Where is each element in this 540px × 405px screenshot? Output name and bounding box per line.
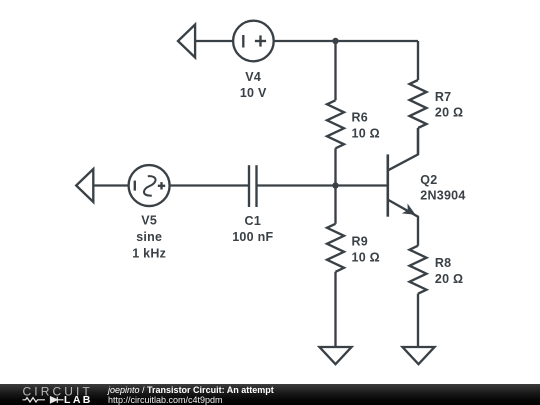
svg-text:V4: V4 xyxy=(245,70,261,84)
svg-text:10 Ω: 10 Ω xyxy=(352,126,380,140)
svg-text:20 Ω: 20 Ω xyxy=(435,106,463,120)
svg-text:LAB: LAB xyxy=(64,394,93,405)
svg-text:10 V: 10 V xyxy=(240,86,267,100)
svg-text:R8: R8 xyxy=(435,256,451,270)
svg-text:20 Ω: 20 Ω xyxy=(435,272,463,286)
svg-text:1 kHz: 1 kHz xyxy=(132,246,166,260)
svg-text:C1: C1 xyxy=(245,214,261,228)
svg-text:Q2: Q2 xyxy=(420,173,437,187)
svg-text:2N3904: 2N3904 xyxy=(420,188,465,202)
svg-text:sine: sine xyxy=(136,230,162,244)
svg-text:V5: V5 xyxy=(141,214,157,228)
svg-text:R9: R9 xyxy=(352,234,368,248)
svg-text:R7: R7 xyxy=(435,90,451,104)
svg-text:100 nF: 100 nF xyxy=(232,230,273,244)
svg-text:R6: R6 xyxy=(352,110,368,124)
svg-text:10 Ω: 10 Ω xyxy=(352,250,380,264)
